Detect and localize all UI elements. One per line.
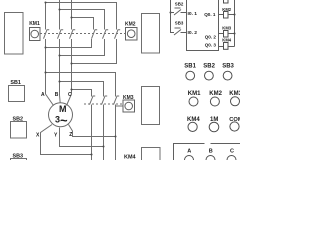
ladder right rail <box>234 0 236 47</box>
KM2 main contact 3 <box>115 30 121 39</box>
junction dots XYZ joins <box>90 135 116 155</box>
phase wire L2 (node B) <box>59 0 62 103</box>
contactor KM2 coil <box>126 28 138 41</box>
mechanical link dashed line KM3 <box>84 103 123 105</box>
svg-text:Y: Y <box>54 133 58 139</box>
svg-text:SB2: SB2 <box>175 2 184 7</box>
svg-text:KM4: KM4 <box>124 155 137 161</box>
button SB2 box <box>11 122 27 139</box>
svg-text:A: A <box>187 149 191 155</box>
svg-text:C: C <box>68 92 72 98</box>
KM1 main contact 3 <box>70 30 76 39</box>
breaker box QS (top-left rectangle) <box>5 13 24 55</box>
KM3 contact 2 <box>102 96 108 105</box>
KM2 main contact 1 <box>92 30 98 39</box>
phase wire L1 (node A) <box>46 3 54 106</box>
output coil KM1 (partial, cut at top) <box>224 0 229 3</box>
svg-text:Z: Z <box>69 132 72 138</box>
svg-text:Q0. 2: Q0. 2 <box>205 35 217 40</box>
phase wire L3 (node C) <box>67 0 72 106</box>
power terminal circle B <box>206 156 215 165</box>
motor lead X <box>41 125 92 155</box>
branch L1 to KM2 <box>46 3 117 30</box>
svg-text:Q0. 1: Q0. 1 <box>204 12 216 17</box>
KM1 main contact 2 <box>58 30 64 39</box>
svg-text:KM1: KM1 <box>29 21 40 27</box>
svg-text:KM1: KM1 <box>188 91 201 97</box>
wire PLC to coil KM4 <box>219 46 224 48</box>
svg-text:B: B <box>209 149 213 155</box>
motor lead Z <box>69 125 116 137</box>
wire node B to KM3 wire 2 <box>60 82 104 97</box>
contactor KM1 coil <box>30 28 41 41</box>
KM2 main contact 2 <box>103 30 109 39</box>
motor lead Y <box>60 128 104 147</box>
button SB3 box <box>11 159 27 169</box>
svg-text:C: C <box>230 149 234 155</box>
mechanical link dashed line KM1-KM2 <box>40 33 126 35</box>
ladder left rail <box>171 0 175 33</box>
KM1 main contact 1 <box>44 30 50 39</box>
terminal circle SB1 <box>186 71 195 80</box>
wire SB3 to PLC <box>181 32 187 34</box>
terminal circle SB3 <box>223 71 232 80</box>
KM3 wire 1 <box>91 105 93 161</box>
svg-text:~: ~ <box>60 113 68 128</box>
svg-text:I0. 1: I0. 1 <box>188 11 198 17</box>
wire coil KM2 to right rail <box>228 14 235 16</box>
KM3 contact 3 <box>114 96 120 105</box>
terminal circle KM4 <box>188 122 197 131</box>
svg-text:SB3: SB3 <box>222 63 234 69</box>
fuse box FU1 (middle upper rectangle) <box>142 14 160 54</box>
svg-text:SB2: SB2 <box>203 63 215 69</box>
terminal circle KM1 <box>189 97 198 106</box>
button SB2 contact (ladder) <box>174 8 181 15</box>
wire node C to KM3 wire 1 <box>72 90 92 97</box>
fuse box FU2 (middle lower rectangle) <box>142 87 160 125</box>
KM2 contact 2 output to node B <box>60 39 105 56</box>
junction dot rail rung2 <box>233 32 235 34</box>
KM3 wire 2 <box>103 105 105 161</box>
contactor KM3 coil <box>123 100 135 112</box>
KM3 wire 3 <box>115 105 117 161</box>
wire KM3 coil left stub <box>116 105 124 107</box>
wire node A to KM3 wire 3 <box>46 73 116 97</box>
KM3 contact 1 <box>90 96 96 105</box>
wire PLC to coil KM2 <box>219 14 224 16</box>
terminal circle KM2 <box>210 97 219 106</box>
svg-text:B: B <box>55 92 59 98</box>
power terminal box <box>174 144 241 161</box>
power terminal circle A <box>185 156 194 165</box>
svg-text:X: X <box>36 133 40 139</box>
output coil KM2 <box>224 12 229 19</box>
KM2 contact 3 output to node C <box>72 39 117 64</box>
junction dots on phase wires <box>44 1 72 90</box>
terminal circle KM3 <box>231 97 240 106</box>
wire SB2 to PLC <box>181 12 187 14</box>
power terminal circle C <box>227 156 236 165</box>
PLC box <box>187 0 219 51</box>
terminal circle COM <box>230 122 239 131</box>
button SB1 box <box>9 86 25 102</box>
svg-text:KM2: KM2 <box>209 91 222 97</box>
svg-text:KM4: KM4 <box>222 38 232 43</box>
motor M terminal labels A B C <box>41 92 72 98</box>
terminal circle SB2 <box>205 71 214 80</box>
svg-text:SB1: SB1 <box>10 80 21 86</box>
branch L2 to KM2 <box>60 10 105 30</box>
terminal circle 1M <box>209 122 219 132</box>
wire coil KM4 to right rail <box>228 46 235 48</box>
motor terminal labels X Y Z <box>36 132 72 139</box>
junction dot rail rung1 <box>233 13 235 15</box>
svg-text:SB3: SB3 <box>175 20 184 25</box>
junction dot rail SB2 <box>169 11 171 13</box>
KM2 contact 1 output to node A <box>46 39 92 48</box>
svg-text:A: A <box>41 92 45 98</box>
svg-text:KM2: KM2 <box>125 22 136 28</box>
svg-text:KM3: KM3 <box>222 26 232 31</box>
svg-text:SB1: SB1 <box>184 63 196 69</box>
button SB3 contact (ladder) <box>174 28 181 35</box>
output coil KM3 <box>224 31 229 38</box>
svg-text:Q0. 3: Q0. 3 <box>205 42 217 47</box>
svg-text:KM4: KM4 <box>187 117 200 123</box>
branch L3 to KM2 <box>72 18 94 30</box>
transformer KM4 box <box>142 148 161 164</box>
wire coil KM3 to right rail <box>228 33 235 35</box>
svg-text:KM3: KM3 <box>229 91 240 97</box>
output coil KM4 <box>224 43 229 50</box>
svg-text:I0. 2: I0. 2 <box>188 30 198 36</box>
motor M circle <box>49 103 73 127</box>
wire rail to SB2 <box>171 12 175 14</box>
wire PLC to coil KM3 <box>219 33 224 35</box>
